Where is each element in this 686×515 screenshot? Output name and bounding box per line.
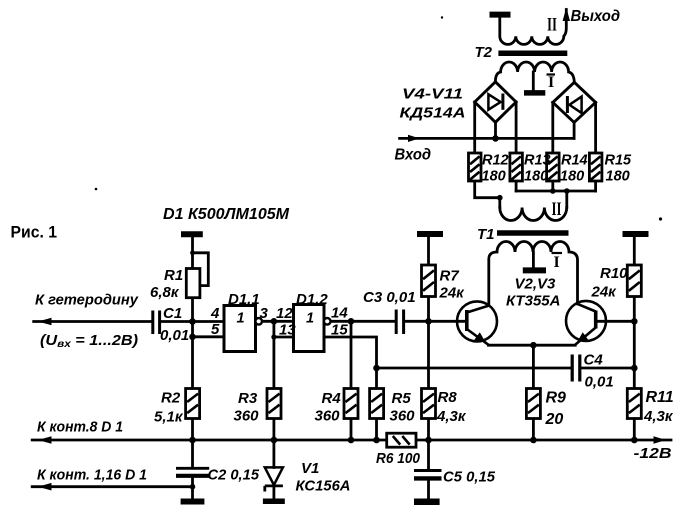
svg-text:360: 360	[390, 408, 416, 425]
svg-text:T2: T2	[475, 44, 493, 61]
svg-text:Выход: Выход	[571, 8, 621, 25]
svg-text:R4: R4	[322, 390, 342, 407]
svg-text:R15: R15	[605, 153, 633, 169]
svg-text:T1: T1	[477, 226, 495, 243]
svg-text:С3 0,01: С3 0,01	[363, 289, 416, 306]
svg-text:R3: R3	[238, 390, 258, 407]
svg-text:C1: C1	[163, 305, 182, 322]
svg-text:4: 4	[210, 305, 220, 322]
svg-text:180: 180	[606, 169, 630, 185]
svg-text:R1: R1	[164, 267, 183, 284]
svg-text:180: 180	[560, 169, 584, 185]
svg-text:КД514А: КД514А	[400, 105, 466, 122]
svg-text:Рис. 1: Рис. 1	[11, 223, 58, 242]
svg-text:5: 5	[211, 321, 220, 338]
svg-text:-12В: -12В	[634, 445, 672, 462]
svg-text:R9: R9	[546, 390, 567, 407]
svg-text:5,1к: 5,1к	[154, 409, 184, 426]
svg-text:К конт.8 D 1: К конт.8 D 1	[37, 419, 123, 436]
svg-text:0,01: 0,01	[585, 374, 614, 391]
svg-text:360: 360	[315, 408, 341, 425]
svg-text:R12: R12	[482, 153, 509, 169]
svg-text:12: 12	[276, 305, 293, 322]
svg-text:24к: 24к	[439, 285, 466, 302]
svg-text:D1 К500ЛМ105М: D1 К500ЛМ105М	[163, 206, 290, 223]
svg-text:1: 1	[237, 311, 245, 327]
svg-text:R6 100: R6 100	[376, 450, 421, 467]
svg-text:R5: R5	[392, 390, 412, 407]
svg-text:R13: R13	[524, 153, 551, 169]
svg-text:V2,V3: V2,V3	[515, 276, 557, 293]
svg-text:3: 3	[260, 305, 269, 322]
svg-text:1: 1	[306, 311, 314, 327]
svg-text:V1: V1	[301, 460, 319, 477]
svg-text:КС156А: КС156А	[296, 478, 351, 495]
svg-text:I: I	[554, 254, 560, 271]
svg-text:D1.2: D1.2	[296, 291, 328, 308]
svg-text:C2 0,15: C2 0,15	[208, 467, 260, 484]
svg-text:4,3к: 4,3к	[643, 408, 674, 425]
svg-text:R14: R14	[561, 153, 588, 169]
svg-text:6,8к: 6,8к	[150, 284, 180, 301]
svg-text:180: 180	[524, 169, 548, 185]
svg-text:R7: R7	[440, 268, 460, 285]
svg-text:360: 360	[234, 408, 260, 425]
svg-text:II: II	[552, 199, 562, 220]
svg-text:II: II	[547, 15, 557, 36]
svg-text:13: 13	[279, 322, 296, 339]
svg-text:К гетеродину: К гетеродину	[35, 292, 139, 309]
svg-text:(Uвх = 1...2В): (Uвх = 1...2В)	[40, 333, 138, 350]
svg-text:C5 0,15: C5 0,15	[443, 469, 496, 486]
svg-text:180: 180	[482, 169, 506, 185]
svg-text:24к: 24к	[591, 284, 618, 301]
svg-text:С4: С4	[584, 352, 604, 369]
svg-text:4,3к: 4,3к	[436, 408, 467, 425]
svg-text:20: 20	[545, 411, 564, 428]
svg-text:R11: R11	[646, 389, 674, 406]
svg-text:I: I	[548, 74, 554, 91]
svg-text:V4-V11: V4-V11	[402, 86, 463, 103]
svg-text:КТ355А: КТ355А	[506, 293, 561, 310]
svg-text:К конт. 1,16 D 1: К конт. 1,16 D 1	[37, 467, 147, 484]
svg-text:Вход: Вход	[395, 147, 432, 164]
svg-text:0,01: 0,01	[160, 327, 189, 344]
svg-text:D1.1: D1.1	[228, 291, 260, 308]
svg-text:R2: R2	[161, 390, 181, 407]
svg-text:R10: R10	[600, 265, 628, 282]
svg-text:R8: R8	[438, 389, 458, 406]
svg-text:14: 14	[331, 305, 348, 322]
svg-text:15: 15	[331, 322, 348, 339]
